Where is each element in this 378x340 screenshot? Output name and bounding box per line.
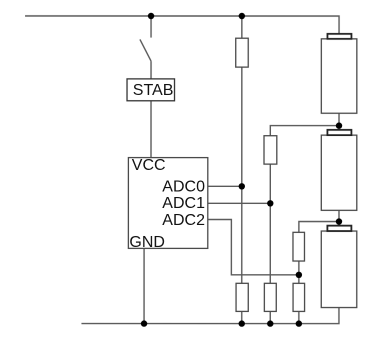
wire node1 to resistor R2 (270, 126, 339, 136)
wire top rail (25, 16, 339, 34)
cell B3 cap (327, 226, 351, 231)
cell B3 body (321, 231, 357, 308)
node ADC0 tap (239, 183, 245, 189)
resistor R6 (293, 283, 305, 311)
cell B1 body (321, 39, 357, 113)
node R6 on bottom rail (296, 320, 302, 326)
wire node2 to resistor R3 (299, 222, 339, 233)
node R5 on bottom rail (267, 320, 273, 326)
wire ADC2 pin routed to node (208, 220, 299, 275)
node B2-B3 junction (336, 218, 342, 224)
wire R3 bottom through ADC2 node to resistor R6 (298, 261, 300, 283)
STAB box (127, 79, 175, 101)
node top rail / switch (148, 13, 154, 19)
svg-text:GND: GND (129, 234, 165, 251)
wire R5 bottom to bottom rail (269, 311, 271, 323)
resistor R4 (236, 283, 248, 311)
wire cell B2 bottom lead (338, 210, 340, 225)
svg-text:ADC1: ADC1 (162, 195, 205, 212)
wire top rail to resistor R1 (241, 16, 243, 38)
wire cell B1 bottom lead (338, 113, 340, 130)
wire ADC0 pin (208, 185, 242, 187)
wire R1 bottom through ADC0 node to resistor R4 (241, 67, 243, 283)
svg-text:VCC: VCC (132, 157, 166, 174)
cell B2 body (321, 135, 357, 210)
wire switch top lead (150, 16, 152, 38)
wire STAB to VCC pin (150, 101, 152, 158)
wire switch to STAB (150, 61, 152, 79)
node ADC2 tap (296, 272, 302, 278)
resistor R3 (293, 232, 305, 261)
resistor R1 (236, 38, 249, 67)
cell B1 cap (327, 34, 351, 39)
wire ADC1 pin (208, 202, 270, 204)
svg-text:ADC0: ADC0 (162, 178, 205, 195)
resistor R2 (264, 136, 277, 164)
node ADC1 tap (267, 200, 273, 206)
cell B2 cap (327, 130, 351, 135)
node R4 on bottom rail (239, 320, 245, 326)
resistor R5 (264, 283, 276, 311)
wire bottom rail (81, 307, 339, 323)
node GND on bottom rail (141, 320, 147, 326)
svg-text:STAB: STAB (133, 82, 174, 99)
wire R4 bottom to bottom rail (241, 311, 243, 323)
svg-text:ADC2: ADC2 (162, 212, 205, 229)
wire R2 bottom through ADC1 node to resistor R5 (269, 164, 271, 283)
op-amp U1 box (ADC IC) (128, 158, 207, 249)
node top rail / R1 (239, 13, 245, 19)
switch S1 blade (140, 39, 151, 61)
node B1-B2 junction (336, 122, 342, 128)
wire R6 bottom to bottom rail (298, 311, 300, 323)
wire GND pin to bottom rail (143, 248, 145, 323)
